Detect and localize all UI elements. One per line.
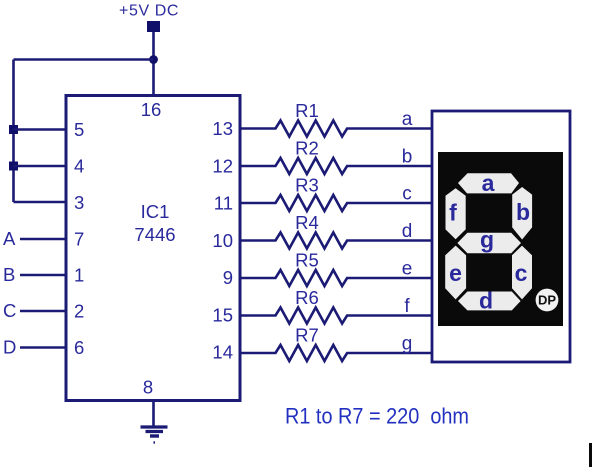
resistor R4 (240, 212, 432, 249)
svg-text:R2: R2 (295, 138, 319, 159)
resistor R2 (240, 138, 432, 175)
svg-text:3: 3 (74, 192, 84, 213)
svg-text:d: d (479, 288, 493, 314)
segment d (458, 288, 521, 314)
svg-text:8: 8 (143, 377, 153, 398)
svg-text:B: B (3, 264, 15, 285)
segment f (446, 188, 466, 239)
svg-text:R7: R7 (295, 325, 319, 346)
svg-text:6: 6 (74, 337, 84, 358)
svg-text:b: b (402, 147, 413, 168)
decimal point DP (536, 289, 559, 312)
svg-text:a: a (402, 109, 413, 130)
resistor R6 (240, 287, 432, 324)
svg-text:15: 15 (212, 305, 233, 326)
svg-text:b: b (516, 199, 530, 225)
svg-text:+5V DC: +5V DC (119, 3, 179, 20)
svg-text:a: a (482, 170, 495, 196)
svg-text:R4: R4 (295, 212, 319, 233)
wire pin 8 to ground (152, 400, 155, 427)
svg-text:f: f (404, 296, 410, 317)
svg-text:14: 14 (212, 342, 233, 363)
segment g (457, 227, 521, 254)
svg-text:g: g (402, 334, 413, 355)
svg-text:R3: R3 (295, 175, 319, 196)
segment e (445, 246, 466, 300)
svg-text:IC1: IC1 (141, 201, 170, 222)
wire to pin 3 (14, 201, 67, 204)
svg-text:7446: 7446 (134, 224, 175, 245)
svg-text:A: A (3, 228, 16, 249)
svg-text:13: 13 (212, 118, 233, 139)
svg-text:1: 1 (74, 265, 84, 286)
wire to pin 5 (14, 128, 67, 131)
wire B to pin 1 (20, 274, 66, 277)
ground (141, 427, 168, 443)
svg-text:D: D (3, 337, 16, 358)
svg-text:g: g (480, 227, 494, 253)
resistor R7 (240, 325, 432, 362)
svg-text:9: 9 (223, 267, 233, 288)
svg-text:16: 16 (141, 99, 162, 120)
segment b (512, 187, 532, 240)
op-amp U1: IC1 7446 body (66, 96, 240, 401)
svg-text:2: 2 (74, 301, 84, 322)
segment c (512, 246, 532, 300)
svg-text:d: d (402, 221, 413, 242)
wire A to pin 7 (20, 238, 66, 241)
svg-text:11: 11 (214, 193, 233, 214)
resistor R5 (240, 250, 432, 287)
svg-text:e: e (449, 260, 462, 286)
wire vertical left bus (12, 60, 15, 203)
resistor R1 (240, 100, 432, 137)
svg-text:10: 10 (212, 230, 233, 251)
wire D to pin 6 (20, 346, 66, 349)
svg-text:c: c (402, 184, 412, 205)
svg-text:4: 4 (74, 156, 84, 177)
svg-text:R1: R1 (295, 100, 319, 121)
junction pin 4 (9, 162, 18, 171)
svg-text:C: C (3, 300, 16, 321)
7-segment display module box (432, 111, 570, 362)
resistor R3 (240, 175, 432, 212)
svg-text:R1 to R7 = 220 ohm: R1 to R7 = 220 ohm (285, 404, 469, 429)
scan artifact bottom-right (589, 443, 592, 467)
svg-text:R5: R5 (295, 250, 319, 271)
wire to pin 4 (14, 165, 67, 168)
wire C to pin 2 (20, 310, 66, 313)
junction top-left (149, 55, 158, 64)
svg-text:7: 7 (74, 229, 84, 250)
svg-text:f: f (449, 200, 457, 226)
svg-text:12: 12 (212, 156, 233, 177)
display black face (438, 152, 563, 326)
wire horizontal top-left (14, 58, 154, 61)
svg-text:DP: DP (538, 293, 556, 308)
power supply terminal square (147, 21, 160, 32)
svg-text:e: e (402, 259, 413, 280)
svg-text:5: 5 (74, 119, 84, 140)
svg-text:c: c (515, 260, 528, 286)
segment a (458, 170, 519, 196)
wire from +5V down to IC pin 16 (152, 32, 155, 96)
junction pin 5 (9, 125, 18, 134)
svg-text:R6: R6 (295, 287, 319, 308)
